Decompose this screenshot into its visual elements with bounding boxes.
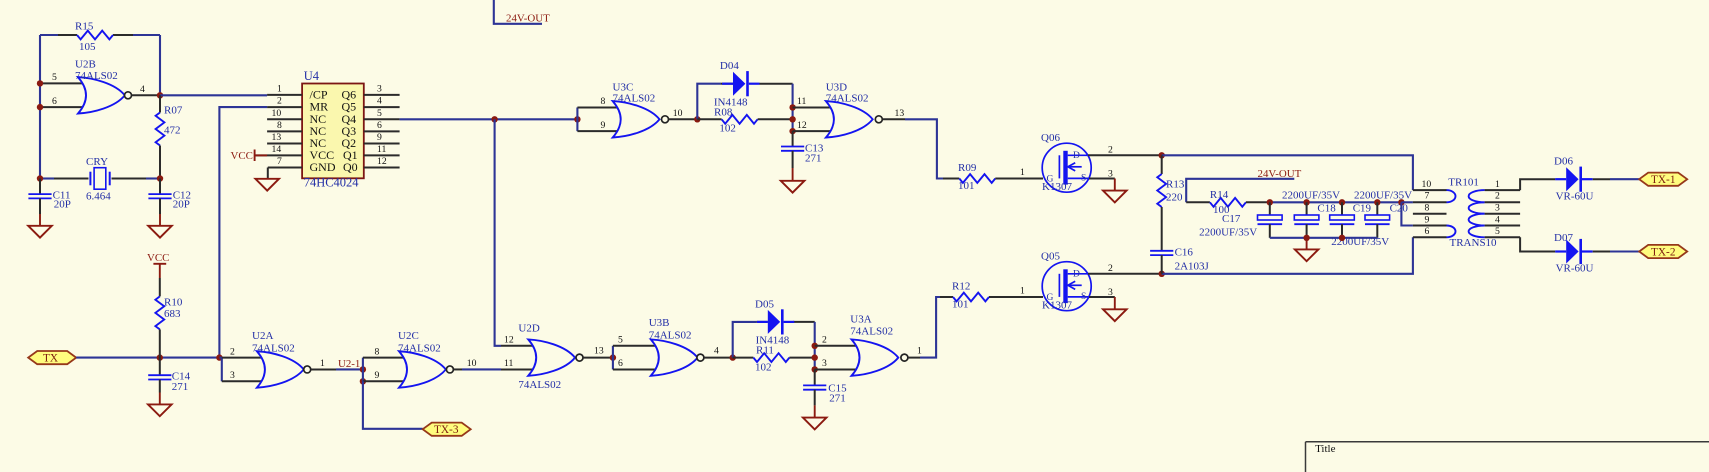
svg-text:1: 1 — [320, 358, 325, 369]
svg-text:R09: R09 — [958, 162, 977, 174]
svg-text:U3B: U3B — [649, 317, 670, 329]
svg-text:VCC: VCC — [147, 252, 169, 264]
op-amp U3A (NOR gate 74ALS02) — [815, 314, 922, 376]
svg-text:5: 5 — [618, 334, 623, 345]
wire pin9 bracket — [1401, 202, 1413, 225]
svg-text:8: 8 — [375, 346, 380, 357]
port TX-2 — [1639, 245, 1687, 259]
svg-text:2: 2 — [277, 96, 282, 107]
svg-text:U4: U4 — [304, 69, 320, 83]
node Q06 drain rail — [1159, 152, 1165, 158]
svg-text:74ALS02: 74ALS02 — [75, 70, 118, 82]
node C19 bottom — [1339, 235, 1345, 241]
resistor R12 — [952, 281, 1043, 311]
svg-text:10: 10 — [272, 108, 282, 119]
svg-text:U2C: U2C — [398, 330, 419, 342]
node U3D pin11 — [789, 104, 795, 110]
node U3A pin2 — [812, 343, 818, 349]
wire D06 to TX-1 — [1593, 178, 1610, 180]
ground below C15 — [803, 405, 827, 429]
svg-text:11: 11 — [504, 358, 513, 369]
transistor Q05 K1307 — [1041, 251, 1113, 312]
node 4 junction — [730, 354, 736, 360]
node C18 bottom — [1303, 235, 1309, 241]
svg-text:12: 12 — [377, 156, 387, 167]
svg-text:R14: R14 — [1210, 189, 1229, 201]
wire Q05 source to ground — [1089, 296, 1115, 298]
svg-text:2200UF/35V: 2200UF/35V — [1282, 190, 1340, 202]
svg-text:U3C: U3C — [613, 81, 634, 93]
diode D04 IN4148 — [714, 60, 760, 108]
svg-text:3: 3 — [230, 370, 235, 381]
U4 left pin stubs — [255, 95, 303, 168]
capacitor C14 — [148, 358, 190, 393]
wire Q06 source to ground — [1089, 178, 1115, 180]
wire U3C input bracket — [576, 107, 578, 131]
svg-text:74HC4024: 74HC4024 — [304, 175, 360, 189]
wire U3D input bracket — [792, 107, 794, 131]
resistor R13 — [1157, 155, 1185, 251]
transformer TR101 TRANS10 — [1413, 176, 1520, 249]
wire TX net — [76, 357, 219, 359]
wire pin1 to D06 — [1520, 179, 1555, 190]
svg-text:74ALS02: 74ALS02 — [518, 379, 561, 391]
capacitor C12 — [148, 179, 191, 215]
svg-text:683: 683 — [164, 308, 181, 320]
wire U3D out to R09 — [905, 119, 943, 178]
crystal CRY — [86, 156, 111, 202]
node Q4/U2D junction — [491, 116, 497, 122]
node U2C pin9 — [360, 378, 366, 384]
svg-text:D04: D04 — [720, 60, 739, 72]
ground at U4 pin7 — [255, 168, 279, 191]
wire U4 Q4 long net — [400, 118, 578, 120]
svg-text:12: 12 — [504, 334, 514, 345]
capacitor C19 2200UF/35V — [1330, 202, 1390, 248]
svg-text:TX-1: TX-1 — [1651, 174, 1675, 186]
svg-text:G: G — [1047, 293, 1054, 303]
svg-text:220: 220 — [1166, 191, 1183, 203]
svg-text:VCC: VCC — [231, 150, 253, 162]
node U3D pin12 — [789, 128, 795, 134]
node crystal right — [157, 175, 163, 181]
svg-text:5: 5 — [52, 72, 57, 83]
svg-text:8: 8 — [277, 120, 282, 131]
node Q05 drain rail — [1159, 271, 1165, 277]
node C18 top — [1303, 199, 1309, 205]
svg-text:271: 271 — [805, 153, 822, 165]
svg-text:TX-3: TX-3 — [434, 424, 459, 436]
svg-text:9: 9 — [601, 120, 606, 131]
node U3C input bracket — [574, 116, 580, 122]
op-amp U3B (NOR gate 74ALS02) — [613, 317, 733, 376]
svg-text:101: 101 — [952, 298, 969, 310]
capacitor C20 2200UF/35V — [1354, 190, 1412, 238]
svg-text:VR-60U: VR-60U — [1556, 263, 1594, 275]
svg-text:10: 10 — [1422, 179, 1432, 190]
svg-text:TX-2: TX-2 — [1651, 246, 1676, 258]
svg-text:6: 6 — [618, 358, 623, 369]
svg-text:9: 9 — [375, 370, 380, 381]
svg-text:6: 6 — [1425, 226, 1430, 237]
wire left vertical — [39, 35, 41, 179]
power VCC at U4 pin14 — [231, 150, 268, 162]
svg-text:R15: R15 — [75, 21, 94, 33]
svg-text:7: 7 — [1425, 191, 1430, 202]
wire 24V-OUT stub — [494, 0, 542, 24]
power VCC above R10 — [147, 252, 169, 278]
svg-text:1: 1 — [1020, 167, 1025, 178]
svg-text:74ALS02: 74ALS02 — [398, 342, 441, 354]
svg-text:105: 105 — [79, 41, 96, 53]
port TX — [28, 351, 76, 365]
svg-text:74ALS02: 74ALS02 — [613, 93, 656, 105]
svg-text:S: S — [1081, 292, 1086, 302]
svg-text:G: G — [1047, 175, 1054, 185]
ground below C14 — [148, 393, 172, 417]
U4 pin numbers — [272, 84, 387, 168]
wire U2B out to U4 pin1 — [160, 94, 267, 96]
node U3A R11 — [812, 354, 818, 360]
svg-text:271: 271 — [172, 381, 189, 393]
capacitor C16 — [1150, 247, 1209, 274]
svg-text:6: 6 — [377, 120, 382, 131]
svg-text:9: 9 — [377, 132, 382, 143]
svg-text:13: 13 — [895, 108, 905, 119]
svg-text:472: 472 — [164, 125, 181, 137]
net label 24V-OUT (output) — [1186, 168, 1301, 203]
svg-text:7: 7 — [277, 156, 282, 167]
node crystal left — [37, 175, 43, 181]
svg-text:4: 4 — [714, 346, 719, 357]
svg-text:102: 102 — [755, 362, 772, 374]
wire crystal row — [40, 177, 54, 179]
wire Q05 drain — [1088, 273, 1162, 275]
capacitor C15 — [803, 369, 847, 405]
node TX/MR — [216, 354, 222, 360]
svg-text:R10: R10 — [164, 297, 183, 309]
svg-text:8: 8 — [1425, 203, 1430, 214]
svg-text:1: 1 — [917, 346, 922, 357]
svg-text:U3A: U3A — [850, 314, 871, 326]
svg-text:11: 11 — [797, 96, 806, 107]
U4 pin names — [310, 87, 358, 174]
node 10 junction — [694, 116, 700, 122]
svg-text:2200UF/35V: 2200UF/35V — [1199, 227, 1257, 239]
svg-text:R08: R08 — [714, 107, 733, 119]
wire top loop — [40, 34, 58, 36]
svg-text:101: 101 — [958, 180, 975, 192]
svg-text:102: 102 — [719, 123, 736, 135]
wire pin7 stub connect — [1401, 201, 1413, 203]
wire top 24V rail — [1162, 155, 1413, 190]
capacitor C17 2200UF/35V — [1199, 202, 1282, 238]
wire cap bank bottom rail — [1270, 237, 1378, 239]
op-amp U2D (NOR gate 74ALS02) — [501, 323, 613, 392]
svg-text:13: 13 — [272, 132, 282, 143]
svg-text:U3D: U3D — [826, 81, 847, 93]
svg-text:Q05: Q05 — [1041, 251, 1060, 263]
node U2B pin5 — [37, 80, 43, 86]
capacitor C13 — [781, 131, 824, 168]
svg-text:U2A: U2A — [252, 330, 273, 342]
node U2B pin6 — [37, 104, 43, 110]
svg-text:9: 9 — [1425, 214, 1430, 225]
resistor R11 — [733, 345, 815, 374]
svg-text:1: 1 — [1020, 286, 1025, 297]
svg-text:10: 10 — [467, 358, 477, 369]
svg-text:2200UF/35V: 2200UF/35V — [1354, 190, 1412, 202]
resistor R14 — [1186, 189, 1270, 216]
wire Q06 drain — [1088, 154, 1162, 156]
svg-text:24V-OUT: 24V-OUT — [1258, 168, 1302, 180]
svg-text:Title: Title — [1315, 443, 1336, 455]
wire D07 to TX-2 — [1593, 251, 1610, 253]
resistor R15 — [75, 21, 113, 54]
ground below C12 — [148, 214, 172, 238]
op-amp U2C (NOR gate 74ALS02) — [363, 330, 477, 388]
svg-text:10: 10 — [673, 108, 683, 119]
wire D04 bypass loop — [697, 84, 721, 120]
svg-text:R12: R12 — [952, 281, 970, 293]
svg-text:C16: C16 — [1175, 247, 1194, 259]
wire U2C input bracket — [362, 358, 364, 382]
node U3A pin3 — [812, 366, 818, 372]
diode D07 VR-60U — [1554, 232, 1594, 275]
resistor R07 — [156, 95, 183, 178]
node C17 top — [1267, 199, 1273, 205]
ground below cap bank — [1295, 238, 1319, 261]
transistor Q06 K1307 — [1041, 132, 1113, 193]
op-amp U3C (NOR gate 74ALS02) — [577, 81, 697, 137]
diode D05 IN4148 — [755, 299, 794, 347]
svg-text:S: S — [1081, 174, 1086, 184]
svg-text:271: 271 — [829, 393, 846, 405]
svg-text:74ALS02: 74ALS02 — [850, 326, 893, 338]
svg-text:2: 2 — [1108, 144, 1113, 155]
svg-text:CRY: CRY — [86, 156, 108, 168]
svg-text:R13: R13 — [1166, 179, 1185, 191]
wire U4 MR pin2 net — [219, 107, 267, 358]
svg-text:74ALS02: 74ALS02 — [826, 93, 869, 105]
svg-text:2: 2 — [822, 334, 827, 345]
wire U3A input bracket — [814, 346, 816, 370]
svg-text:11: 11 — [377, 144, 386, 155]
svg-text:6: 6 — [52, 96, 57, 107]
wire U2A out / net U2-1 — [336, 368, 363, 370]
svg-text:3: 3 — [822, 358, 827, 369]
capacitor C11 — [28, 179, 71, 215]
ground below C13 — [781, 168, 805, 193]
svg-text:13: 13 — [594, 346, 604, 357]
svg-text:D05: D05 — [755, 299, 774, 311]
svg-text:4: 4 — [1495, 214, 1500, 225]
svg-text:C18: C18 — [1317, 203, 1336, 215]
op-amp U3D (NOR gate 74ALS02) — [793, 81, 905, 137]
wire U3B input bracket — [612, 346, 614, 370]
wire U2A input bracket — [219, 357, 221, 359]
svg-text:4: 4 — [140, 84, 145, 95]
svg-text:2: 2 — [1108, 263, 1113, 274]
svg-text:D07: D07 — [1554, 232, 1573, 244]
svg-text:20P: 20P — [173, 199, 190, 211]
svg-text:1: 1 — [277, 84, 282, 95]
svg-text:GND: GND — [310, 160, 336, 174]
svg-text:20P: 20P — [54, 199, 71, 211]
svg-text:14: 14 — [272, 144, 282, 155]
svg-text:TR101: TR101 — [1448, 176, 1479, 188]
port TX-3 — [423, 423, 471, 437]
U4 right pin stubs — [364, 95, 400, 168]
svg-text:2: 2 — [230, 346, 235, 357]
node C19 top — [1339, 199, 1345, 205]
port TX-1 — [1639, 173, 1687, 187]
svg-text:5: 5 — [377, 108, 382, 119]
svg-text:C19: C19 — [1353, 203, 1372, 215]
svg-text:2: 2 — [1495, 191, 1500, 202]
wire U2C out to U2D pin11 — [462, 368, 501, 370]
node U2C input — [360, 366, 366, 372]
svg-text:Q0: Q0 — [343, 160, 358, 174]
svg-text:U2-1: U2-1 — [338, 358, 360, 370]
wire down to U2D pin12 — [495, 119, 501, 345]
svg-text:R07: R07 — [164, 105, 183, 117]
node U3D R08 — [789, 116, 795, 122]
wire pin5 to D07 — [1520, 237, 1555, 251]
svg-text:TRANS10: TRANS10 — [1450, 237, 1498, 249]
wire right vertical — [159, 35, 161, 95]
svg-text:TX: TX — [43, 353, 58, 365]
node U2B output pin4 — [157, 92, 163, 98]
wire bottom rail — [1162, 237, 1413, 273]
svg-text:12: 12 — [797, 120, 807, 131]
diode D06 VR-60U — [1554, 156, 1594, 203]
svg-text:4: 4 — [377, 96, 382, 107]
svg-text:D: D — [1073, 151, 1080, 161]
svg-text:6.464: 6.464 — [86, 190, 111, 202]
svg-text:2A103J: 2A103J — [1175, 260, 1210, 272]
op-amp U2B (NOR gate 74ALS02) — [40, 59, 160, 114]
svg-text:R11: R11 — [756, 345, 774, 357]
svg-text:74ALS02: 74ALS02 — [252, 342, 295, 354]
svg-text:3: 3 — [377, 84, 382, 95]
svg-text:8: 8 — [601, 96, 606, 107]
ground below C11 — [28, 214, 52, 238]
svg-text:74ALS02: 74ALS02 — [649, 329, 692, 341]
IC U4 74HC4024 body — [302, 69, 364, 190]
node C20 top — [1374, 199, 1380, 205]
resistor R10 — [155, 278, 182, 358]
svg-text:C17: C17 — [1222, 213, 1241, 225]
svg-text:U2D: U2D — [518, 323, 539, 335]
node TX/R10 — [157, 354, 163, 360]
svg-text:U2B: U2B — [75, 59, 96, 71]
svg-text:5: 5 — [1495, 226, 1500, 237]
resistor R08 — [697, 107, 792, 135]
wire TX-3 drop — [363, 381, 423, 429]
svg-text:Q06: Q06 — [1041, 132, 1060, 144]
svg-text:D06: D06 — [1554, 156, 1573, 168]
capacitor C18 2200UF/35V — [1282, 190, 1340, 238]
resistor R09 — [958, 162, 1043, 192]
svg-text:D: D — [1073, 270, 1080, 280]
wire U3A out to R12 — [920, 297, 940, 358]
wire D05 bypass loop — [733, 322, 757, 358]
node U3B bracket — [610, 354, 616, 360]
svg-text:3: 3 — [1495, 203, 1500, 214]
node pin7/pin9 tie — [1398, 199, 1404, 205]
svg-text:1: 1 — [1495, 179, 1500, 190]
svg-text:24V-OUT: 24V-OUT — [506, 13, 550, 25]
svg-text:VR-60U: VR-60U — [1556, 191, 1594, 203]
wire cap bank top rail — [1270, 201, 1402, 203]
op-amp U2A (NOR gate 74ALS02) — [222, 330, 336, 388]
